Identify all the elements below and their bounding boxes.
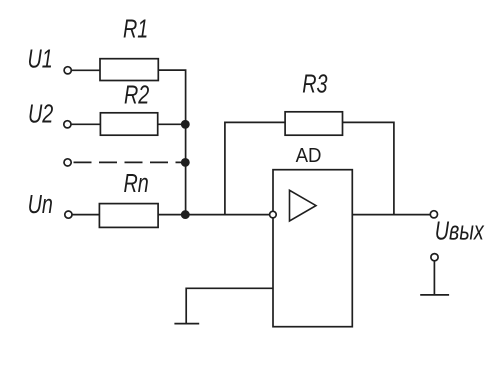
wire U2 terminal to R2 bbox=[71, 123, 100, 125]
node dashed-row input terminal bbox=[64, 159, 71, 166]
resistor R1 bbox=[100, 59, 158, 81]
svg-text:R1: R1 bbox=[123, 14, 148, 43]
op-amp U1 body bbox=[273, 170, 352, 327]
svg-text:U2: U2 bbox=[28, 99, 53, 128]
op-amp amplifier triangle symbol bbox=[290, 190, 317, 221]
ground bbox=[174, 323, 199, 325]
svg-text:Rn: Rn bbox=[124, 168, 149, 197]
wire op-amp output to Uout terminal bbox=[352, 214, 430, 216]
svg-text:U1: U1 bbox=[28, 44, 53, 73]
junction dot Rn/bus summing node bbox=[182, 211, 189, 218]
svg-text:Un: Un bbox=[28, 189, 53, 218]
wire feedback left branch up to R3 bbox=[225, 122, 285, 214]
resistor Rn bbox=[99, 204, 158, 228]
ground common bar bbox=[420, 294, 449, 296]
wire U1 terminal to R1 bbox=[71, 69, 100, 71]
node output common terminal bbox=[431, 254, 438, 261]
pin op-amp input terminal circle bbox=[270, 211, 277, 218]
svg-text:Uвых: Uвых bbox=[435, 216, 485, 245]
junction dot dashed/bus bbox=[182, 159, 189, 166]
node U2 input terminal bbox=[64, 121, 71, 128]
svg-text:R3: R3 bbox=[302, 69, 327, 98]
svg-text:R2: R2 bbox=[124, 80, 149, 109]
resistor R2 bbox=[100, 113, 157, 135]
junction dot R2/bus bbox=[182, 121, 189, 128]
node Un input terminal bbox=[65, 211, 72, 218]
wire R2 to summing bus bbox=[158, 123, 186, 125]
wire R3 to output node bbox=[343, 122, 394, 214]
node U1 input terminal bbox=[64, 67, 71, 74]
wire op-amp ground lead bbox=[186, 288, 273, 323]
resistor R3 bbox=[285, 112, 342, 135]
svg-text:AD: AD bbox=[296, 145, 322, 167]
wire common terminal down lead bbox=[433, 261, 435, 295]
wire R1 to summing bus bbox=[158, 70, 185, 215]
node Uout output terminal bbox=[430, 211, 437, 218]
wire dashed continuation line to bus bbox=[74, 161, 186, 163]
wire Rn to op-amp inverting input bbox=[158, 214, 270, 216]
wire Un terminal to Rn bbox=[72, 214, 99, 216]
